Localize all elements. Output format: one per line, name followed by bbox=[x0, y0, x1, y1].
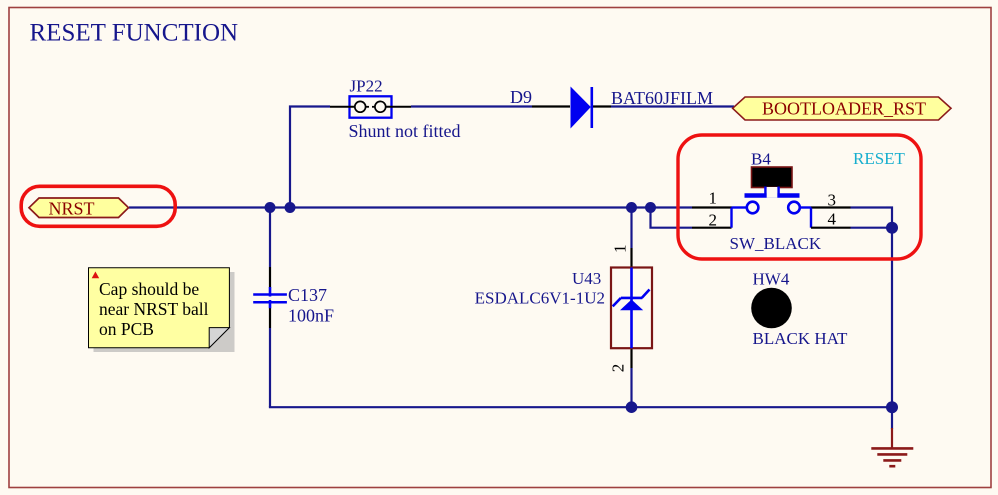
wire: switch pin4 to right vertical bbox=[851, 227, 893, 229]
contact circle right bbox=[788, 202, 800, 214]
wire: stub to ground bbox=[891, 407, 893, 429]
wire: vertical up to JP22 bbox=[290, 107, 330, 208]
junction bbox=[626, 401, 638, 413]
svg-text:B4: B4 bbox=[751, 150, 771, 169]
svg-text:HW4: HW4 bbox=[753, 270, 790, 289]
svg-text:BLACK HAT: BLACK HAT bbox=[753, 329, 849, 348]
pin 3 lead bbox=[800, 206, 811, 208]
svg-text:D9: D9 bbox=[510, 87, 532, 107]
junction bbox=[886, 222, 898, 234]
svg-text:ESDALC6V1-1U2: ESDALC6V1-1U2 bbox=[475, 289, 605, 308]
wire: bottom rail bbox=[269, 406, 892, 408]
port BOOTLOADER_RST bbox=[733, 97, 951, 120]
svg-text:Cap should be: Cap should be bbox=[99, 279, 199, 299]
jumper JP22 bbox=[330, 96, 411, 117]
esd protection U43 bbox=[611, 248, 652, 368]
junction bbox=[645, 202, 656, 213]
annotation red round-rect around reset switch bbox=[678, 135, 921, 259]
strap pins 3-4 bbox=[810, 208, 812, 228]
svg-text:U43: U43 bbox=[572, 269, 601, 288]
button cap bbox=[752, 167, 793, 188]
svg-text:Shunt not fitted: Shunt not fitted bbox=[349, 121, 461, 141]
wire: drop to switch pin2 row bbox=[651, 208, 693, 228]
svg-text:1: 1 bbox=[709, 189, 718, 208]
switch B4 bbox=[692, 167, 851, 228]
svg-text:1: 1 bbox=[611, 245, 630, 254]
svg-text:SW_BLACK: SW_BLACK bbox=[730, 234, 822, 253]
ground bbox=[871, 428, 913, 466]
svg-text:RESET: RESET bbox=[853, 149, 906, 168]
pin 2 lead bbox=[692, 227, 732, 229]
svg-text:3: 3 bbox=[828, 191, 837, 210]
junction bbox=[265, 202, 276, 213]
pin 1 lead bbox=[692, 206, 732, 208]
svg-text:BAT60JFILM: BAT60JFILM bbox=[611, 88, 713, 108]
button stem bbox=[767, 187, 778, 198]
svg-text:JP22: JP22 bbox=[350, 77, 383, 96]
strap pins 1-2 bbox=[730, 208, 732, 228]
wire: main horizontal net NRST bbox=[129, 206, 692, 208]
svg-text:2: 2 bbox=[709, 211, 718, 230]
junction bbox=[886, 401, 898, 413]
wire: JP22 to D9 bbox=[411, 105, 532, 107]
note: cap placement bbox=[89, 268, 235, 352]
hardware HW4 bbox=[751, 288, 792, 329]
wire: D9 to BOOTLOADER_RST bbox=[611, 105, 734, 107]
wire: switch pin3 to right vertical bbox=[851, 208, 893, 228]
svg-text:near NRST ball: near NRST ball bbox=[99, 299, 209, 319]
contact circle left bbox=[747, 202, 759, 214]
wire: vertical to U43 pin1 bbox=[630, 208, 632, 249]
wire: below C137 down to bottom rail bbox=[269, 328, 271, 407]
junction bbox=[626, 202, 637, 213]
wire: U43 pin2 to bottom rail bbox=[630, 368, 632, 407]
svg-text:on PCB: on PCB bbox=[99, 319, 154, 339]
svg-text:4: 4 bbox=[828, 210, 837, 229]
svg-text:NRST: NRST bbox=[49, 199, 95, 219]
actuator bar bbox=[745, 193, 800, 197]
wire: vertical down to C137 bbox=[269, 208, 271, 268]
svg-text:RESET FUNCTION: RESET FUNCTION bbox=[30, 20, 239, 47]
capacitor C137 bbox=[253, 267, 287, 328]
port NRST bbox=[29, 198, 129, 219]
svg-text:2: 2 bbox=[608, 364, 627, 373]
diode D9 bbox=[532, 87, 611, 129]
svg-text:BOOTLOADER_RST: BOOTLOADER_RST bbox=[762, 99, 926, 119]
svg-text:C137: C137 bbox=[288, 285, 327, 305]
annotation red ellipse around NRST bbox=[21, 186, 175, 226]
wire: right vertical down to bottom rail bbox=[891, 228, 893, 408]
svg-text:100nF: 100nF bbox=[288, 306, 334, 326]
junction bbox=[285, 202, 296, 213]
